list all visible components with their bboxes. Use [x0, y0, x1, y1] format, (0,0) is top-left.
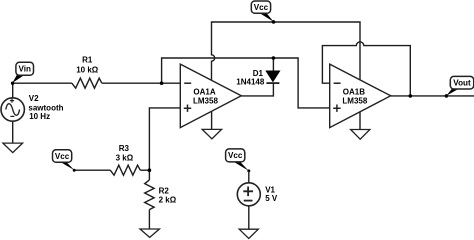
- diode D1 1N4148: [236, 69, 279, 86]
- svg-text:R3: R3: [119, 144, 130, 153]
- svg-text:LM358: LM358: [342, 97, 367, 106]
- wire node B to R2: [148, 170, 150, 180]
- voltage source V2 sawtooth: [1, 83, 64, 143]
- svg-text:OA1B: OA1B: [343, 88, 365, 97]
- wire OA1A output to diode cathode: [241, 84, 273, 96]
- resistor R3 3k: [110, 144, 140, 175]
- node junction R1/feedback: [160, 81, 164, 85]
- power flag Vcc V1: [226, 149, 251, 173]
- wire Vcc left to R3: [74, 169, 110, 171]
- ground OA1B: [351, 112, 370, 140]
- op-amp OA1A LM358: [180, 64, 241, 128]
- wire OA1B feedback loop with hop over Vcc drop: [322, 42, 410, 96]
- ground V2: [3, 143, 23, 153]
- svg-text:Vin: Vin: [18, 65, 31, 74]
- voltage source V1 5V: [237, 171, 278, 229]
- svg-text:Vcc: Vcc: [55, 152, 70, 161]
- svg-text:OA1A: OA1A: [193, 88, 215, 97]
- op-amp OA1B LM358: [330, 64, 391, 128]
- svg-text:10 Hz: 10 Hz: [29, 112, 50, 121]
- power flag Vcc top: [251, 1, 275, 24]
- wire R1 to OA1A inverting input: [102, 82, 180, 84]
- svg-text:Vcc: Vcc: [228, 151, 243, 160]
- wire OA1B output to Vout and right edge: [391, 95, 474, 97]
- node junction OA1B output/feedback: [409, 94, 413, 98]
- svg-text:Vout: Vout: [453, 79, 471, 88]
- svg-text:5 V: 5 V: [265, 194, 278, 203]
- net flag Vin: [11, 62, 34, 85]
- power flag Vcc left: [53, 150, 76, 172]
- net flag Vout: [445, 76, 474, 97]
- ground V1: [239, 229, 258, 238]
- svg-text:R2: R2: [159, 186, 170, 195]
- svg-text:2 kΩ: 2 kΩ: [159, 195, 177, 204]
- node junction R3/R2/+input: [148, 168, 152, 172]
- svg-text:10 kΩ: 10 kΩ: [76, 65, 99, 74]
- svg-text:3 kΩ: 3 kΩ: [116, 153, 134, 162]
- wire Vin node to R1: [13, 82, 72, 84]
- wire diode anode up to feedback node: [272, 58, 274, 71]
- svg-text:sawtooth: sawtooth: [28, 104, 63, 113]
- ground R2: [140, 229, 159, 237]
- svg-text:V2: V2: [29, 94, 39, 103]
- resistor R1 10k: [72, 56, 102, 88]
- svg-text:R1: R1: [82, 56, 93, 65]
- ground OA1A: [202, 111, 221, 139]
- wire R3 to node B: [140, 169, 149, 171]
- svg-text:LM358: LM358: [193, 97, 218, 106]
- wire R2 to ground: [148, 210, 150, 229]
- svg-text:Vcc: Vcc: [254, 3, 269, 12]
- node junction diode/feedback/buffer: [272, 56, 276, 60]
- wire OA1A feedback (node A up and over to diode anode): [162, 58, 274, 83]
- wire Vcc rail with hop over feedback and OA1A V+ pin: [212, 22, 361, 80]
- wire rectifier node to OA1B non-inverting input: [273, 58, 329, 108]
- resistor R2 2k: [145, 180, 177, 210]
- svg-text:1N4148: 1N4148: [236, 77, 265, 86]
- wire node B to OA1A non-inverting input: [149, 108, 180, 170]
